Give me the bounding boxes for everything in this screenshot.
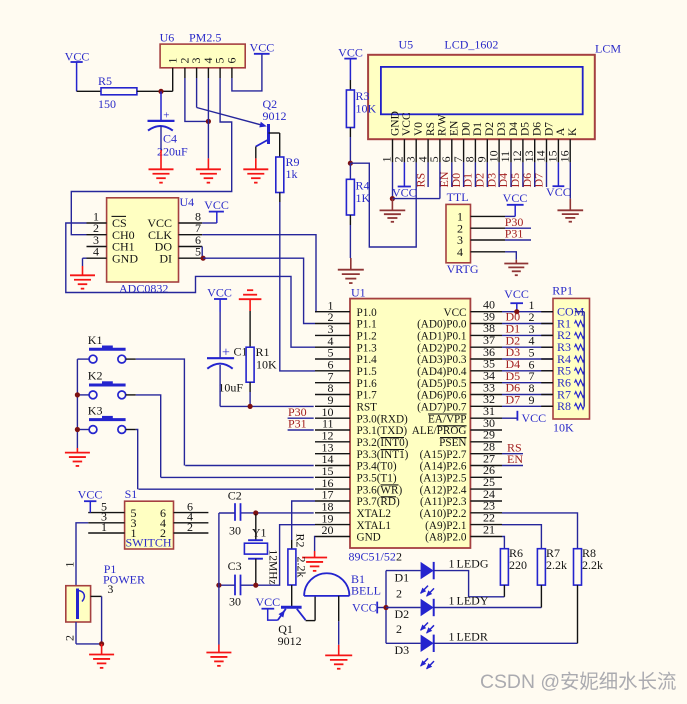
pushbutton K1 [77,333,184,466]
wire D2 cathode to R7 [434,607,542,609]
resistor R2 2.2k [288,534,309,586]
power VCC (S1 pin5) [78,488,103,513]
wire bus to ground [76,448,78,453]
wire C1 to RST node [220,365,250,406]
svg-text:5: 5 [195,245,201,259]
svg-text:P1.2: P1.2 [357,331,377,343]
svg-text:EN: EN [507,452,523,466]
svg-text:C3: C3 [228,559,242,573]
wire P1 pin2 to ground [76,622,102,644]
U4 right pins 8-5 [147,210,202,266]
wire VCC to R5 [77,90,101,92]
svg-text:D7: D7 [532,173,546,188]
svg-text:2: 2 [187,520,193,534]
svg-text:PM2.5: PM2.5 [189,31,221,45]
wire bell to ground [338,596,340,656]
svg-text:(A15)P2.7: (A15)P2.7 [420,449,467,461]
svg-text:(AD2)P0.2: (AD2)P0.2 [417,342,466,354]
wire U6.6 to VCC [232,54,262,91]
transistor Q1 9012 [278,607,306,648]
svg-text:RST: RST [357,402,378,414]
svg-text:P3.2(INT0): P3.2(INT0) [357,437,409,449]
wire net P31 (U1 pin11) [288,417,314,431]
svg-text:VCC: VCC [546,185,571,199]
svg-text:P1.1: P1.1 [357,319,377,331]
wire U6.4 down to ground [207,78,209,169]
svg-text:D1: D1 [395,570,410,584]
wire U6.3 diagonal to Q2 emitter [197,78,265,126]
svg-text:1: 1 [449,629,455,643]
wire CLK to U1 P1.0 [202,235,316,312]
resistor network RP1 10K [552,284,589,435]
power VCC (top-left) [65,50,90,92]
node C1/R1/RST [248,404,253,409]
svg-text:XTAL1: XTAL1 [357,520,392,532]
svg-text:1k: 1k [286,167,298,181]
RP1 pins, labels and zigzag resistors [529,298,585,413]
svg-text:VCC: VCC [503,191,528,205]
label VRTG [447,262,479,276]
svg-text:P3.4(T0): P3.4(T0) [357,461,397,473]
svg-text:LCM: LCM [595,42,621,56]
svg-text:1: 1 [449,594,455,608]
node LED bus VCC [383,605,388,610]
svg-text:(A9)P2.1: (A9)P2.1 [425,520,466,532]
wire TTL pin2 net P30 [505,215,531,229]
U1 left pins 1-20 [315,298,409,543]
connector P1 POWER [66,562,145,622]
svg-text:P3.6(WR): P3.6(WR) [357,484,403,496]
svg-text:(A11)P2.3: (A11)P2.3 [420,496,467,508]
capacitor C3 30 [219,559,256,608]
svg-text:RP1: RP1 [552,284,573,298]
RP1 internal bus [575,312,584,407]
ground under keys [65,453,90,466]
svg-text:21: 21 [483,522,495,536]
wire net RS (U1 pin28) [502,440,523,454]
svg-text:(AD3)P0.3: (AD3)P0.3 [417,354,467,366]
svg-text:(AD4)P0.4: (AD4)P0.4 [417,366,467,378]
svg-text:89C51/52: 89C51/52 [349,550,396,564]
svg-text:(A10)P2.2: (A10)P2.2 [420,508,467,520]
svg-text:P1.5: P1.5 [357,366,378,378]
svg-text:VCC: VCC [338,46,363,60]
svg-text:VCC: VCC [78,488,103,502]
svg-text:C2: C2 [228,488,242,502]
node DO/DI junction [201,256,206,261]
LED D2 LEDY [386,586,489,633]
svg-text:(A13)P2.5: (A13)P2.5 [420,473,467,485]
svg-text:V0: V0 [413,122,425,136]
svg-text:2: 2 [160,526,166,540]
svg-text:K: K [567,127,579,136]
wire DI to U1 P1.1 [203,258,315,323]
svg-text:P1.3: P1.3 [357,342,378,354]
ground under U4 GND [70,275,95,288]
svg-text:P31: P31 [288,417,307,431]
capacitor C4 220uF [148,109,189,158]
svg-text:1: 1 [131,526,137,540]
svg-text:(AD6)P0.6: (AD6)P0.6 [417,390,467,402]
svg-text:VCC: VCC [401,112,413,136]
resistor R8 2.2k [574,546,604,643]
U1 right pins 40-21 [412,298,502,544]
svg-text:K2: K2 [88,369,103,383]
wire R1 to RST node [249,382,251,406]
wires LCD EN,D0-D7 stubs down [452,162,547,187]
U6 pin numbers 1-6 [165,58,238,64]
svg-text:VCC: VCC [250,41,275,55]
wire D1 cathode to R6 [434,571,505,597]
wire R2 to Q1 base [291,585,293,607]
wire XTAL2 row to C2/Y1 [241,512,314,514]
svg-text:6: 6 [225,58,239,64]
svg-text:D1: D1 [472,122,484,136]
power VCC (U1 pin40) [504,287,529,312]
U5 pin stubs [393,139,571,162]
svg-text:PSEN: PSEN [439,437,466,449]
wire CS loop to U1 P1.3 [66,223,315,347]
svg-text:(AD5)P0.5: (AD5)P0.5 [417,378,467,390]
ground under P1 [89,655,114,668]
power VCC (LED bus) [352,601,386,615]
U5 pin names rotated [389,111,579,136]
svg-text:1K: 1K [356,191,371,205]
wire DO joins DI [201,247,203,259]
wire U4 GND to ground [83,258,87,275]
wire K3 to P3.6 [139,488,314,490]
ground under U6.4 [196,169,221,182]
svg-text:VCC: VCC [207,286,232,300]
svg-text:VRTG: VRTG [447,262,479,276]
svg-text:P3.1(TXD): P3.1(TXD) [357,425,408,437]
svg-text:1: 1 [101,520,107,534]
svg-text:ADC0832: ADC0832 [119,282,168,296]
node VCC/RP1 [514,309,519,314]
svg-text:P1.4: P1.4 [357,354,378,366]
svg-text:Y1: Y1 [252,526,267,540]
svg-text:D7: D7 [506,393,521,407]
ground under R4 [338,270,364,283]
ground under LCD pin16 [557,210,583,221]
wire RST row from C1/R1 node [250,405,314,407]
resistor R5 150 [98,74,137,111]
wire K bus [76,359,78,448]
svg-text:TTL: TTL [447,190,469,204]
wire K2 to P3.5 [161,476,314,478]
svg-text:GND: GND [357,532,381,544]
svg-text:U5: U5 [399,38,414,52]
capacitor C1 10uF [207,312,248,395]
svg-text:D3: D3 [496,122,508,136]
wire U6.5 to ADC CH0 [71,78,231,235]
svg-text:150: 150 [98,97,116,111]
wires D0-D7 to RP1 with red labels [502,310,553,407]
buzzer B1 BELL [304,572,381,598]
svg-text:D6: D6 [532,122,544,136]
svg-text:GND: GND [112,251,138,265]
svg-text:+: + [222,346,230,361]
power VCC (Q1 emitter) [255,595,280,620]
svg-text:(A8)P2.0: (A8)P2.0 [425,532,467,544]
svg-text:P1.6: P1.6 [357,378,378,390]
wire P3.7 to R2 [292,501,315,540]
svg-text:P1.7: P1.7 [357,390,378,402]
ground under Q2 [243,169,268,182]
wire U6.2 to ground node [185,78,209,121]
wire LED bus [385,571,387,644]
svg-text:RS: RS [425,122,437,136]
svg-text:LEDR: LEDR [457,629,488,643]
ground under LCD pin1 [380,199,406,222]
node K3 bus [75,427,80,432]
P1 pin2 rotated label [63,635,77,641]
resistor R1 10K [246,311,277,382]
svg-text:VCC: VCC [352,601,377,615]
LED D3 LEDR [386,622,488,669]
TTL pin numbers [457,210,463,259]
IC U1 89C51/52 [349,286,471,564]
node K2 bus [75,392,80,397]
power VCC (LCD pin2, downward) [392,162,417,199]
node LCD pin1/RW [390,196,395,201]
svg-text:U6: U6 [160,31,175,45]
svg-text:2: 2 [63,635,77,641]
U5 pin numbers 1-16 rotated [380,150,572,162]
svg-text:1: 1 [63,562,77,568]
wire R3 to node [349,128,351,164]
U6 pin stubs [173,68,232,78]
svg-text:VCC: VCC [504,287,529,301]
node R3/R4/V0 [348,161,353,166]
resistor R9 1k [276,133,300,193]
svg-text:D5: D5 [520,122,532,136]
wire R9 to U1 P1.5 [280,193,315,371]
svg-text:D2: D2 [395,607,410,621]
svg-text:4: 4 [93,245,99,259]
svg-text:2.2k: 2.2k [582,558,603,572]
resistor R3 10K [346,80,376,128]
svg-text:ALE/PROG: ALE/PROG [412,425,467,437]
svg-text:P3.7(RD): P3.7(RD) [357,496,400,508]
svg-text:P3.5(T1): P3.5(T1) [357,473,397,485]
flipped ground above R1 [239,290,262,311]
capacitor C2 30 [219,488,242,537]
svg-text:VCC: VCC [392,185,417,199]
svg-text:2: 2 [396,549,402,563]
svg-text:(AD7)P0.7: (AD7)P0.7 [417,402,467,414]
ground under crystal bus [206,653,231,666]
connector U6 PM2.5 [160,31,246,68]
wire LCD GND pin1 down [392,162,394,198]
U4 left pins 1-4 [87,210,139,266]
svg-text:EN: EN [449,120,461,136]
power VCC (U4 pin8) [202,198,229,223]
wire LCD RS pin4 stub [427,162,429,187]
ground under TTL pin4 [504,264,528,276]
wire U6.1 down to node [172,78,174,91]
wire P2.2 to R8 [502,513,578,549]
svg-text:D2: D2 [484,122,496,136]
svg-text:VCC: VCC [522,411,547,425]
svg-text:12MHz: 12MHz [267,550,279,585]
power VCC (EA/VPP pin31, sideways) [502,411,546,425]
svg-text:CSDN @安妮细水长流: CSDN @安妮细水长流 [480,671,676,693]
svg-text:(AD1)P0.1: (AD1)P0.1 [417,331,466,343]
node junction R5/C4/U6.1 [158,89,163,94]
svg-text:R5: R5 [98,74,112,88]
svg-text:R8: R8 [557,399,571,413]
power VCC (C1 top) [207,286,232,313]
wire P2.0 to R6 [502,537,504,549]
P1 pin1 rotated label [63,562,77,568]
svg-text:1: 1 [449,557,455,571]
svg-text:GND: GND [389,111,401,136]
connector TTL [446,190,471,263]
red net labels RS EN D0-D7 (LCD) [413,171,545,187]
wire VCC row to RP1 COM [502,311,553,313]
svg-text:D7: D7 [543,122,555,136]
svg-text:2: 2 [396,586,402,600]
svg-text:U4: U4 [180,195,195,209]
svg-text:R2: R2 [294,534,308,548]
svg-text:VCC: VCC [204,198,229,212]
node C3/Y1 [253,583,258,588]
wire C4 to ground [160,126,162,169]
svg-text:10K: 10K [256,358,277,372]
wire LCD pin1 to RW pin5 [392,162,440,198]
svg-text:10uF: 10uF [218,381,243,395]
wire R5 to node [137,90,173,92]
crystal Y1 12MHz [244,514,278,585]
wire LCD pin16 K to ground [569,162,571,210]
svg-text:A: A [555,127,567,136]
svg-text:S1: S1 [125,487,138,501]
power VCC (U6 pin6) [250,41,275,55]
switch S1 [125,487,174,550]
LED D1 LEDG [386,549,489,596]
wire U1 GND to ground [314,537,316,558]
wire S1 pin3 to P1 [76,523,88,586]
svg-text:P1.0: P1.0 [357,307,378,319]
svg-text:30: 30 [229,524,241,538]
wire node to ground [101,644,103,655]
svg-text:P3.3(INT1): P3.3(INT1) [357,449,409,461]
svg-text:U1: U1 [351,286,366,300]
IC U4 ADC0832 [107,195,195,296]
svg-text:3: 3 [107,582,113,596]
svg-text:(A12)P2.4: (A12)P2.4 [420,484,467,496]
svg-text:C4: C4 [163,132,177,146]
svg-text:D0: D0 [460,122,472,136]
LCD module U5 LCD_1602 [368,38,621,140]
svg-text:2: 2 [396,622,402,636]
ground under U1 GND [302,558,327,571]
svg-text:4: 4 [457,245,463,259]
resistor R6 220 [500,546,527,597]
power VCC (R3 top) [338,46,363,81]
wire node to C4 [160,91,162,121]
resistor R4 1K [346,163,370,215]
resistor R7 2.2k [537,546,567,608]
svg-text:9: 9 [529,393,535,407]
svg-text:16: 16 [557,150,571,162]
wire net EN (U1 pin27) [502,452,523,466]
svg-text:K3: K3 [88,403,103,417]
svg-text:9012: 9012 [278,634,302,648]
S1 pins and numbers [88,499,208,540]
node C2/Y1 [253,510,258,515]
svg-text:P3.0(RXD): P3.0(RXD) [357,413,409,425]
wire crystal bus to ground [218,513,220,653]
svg-text:30: 30 [229,595,241,609]
ground under C4 [149,169,174,182]
watermark CSDN [480,671,676,693]
svg-text:D3: D3 [395,643,410,657]
power VCC (LCD pin15 A, downward) [546,162,571,199]
wire P2.1 to R7 [502,525,541,549]
wire XTAL1 row to C3/Y1 [256,525,315,586]
svg-text:LCD_1602: LCD_1602 [444,38,498,52]
svg-text:220: 220 [509,558,527,572]
svg-text:BELL: BELL [351,584,381,598]
svg-text:EA/VPP: EA/VPP [428,413,467,425]
power VCC (TTL pin1) [503,191,528,217]
svg-text:(AD0)P0.0: (AD0)P0.0 [417,319,467,331]
svg-text:XTAL2: XTAL2 [357,508,392,520]
wire Q1 collector to bell [306,596,316,621]
wire D3 cathode to R8 [434,642,578,644]
pushbutton K2 [77,369,160,478]
svg-text:DI: DI [159,251,172,265]
pushbutton K3 [77,403,137,489]
transistor Q2 9012 [256,97,287,147]
node C3 bus [216,583,221,588]
wire node to LCD V0 [350,162,416,247]
svg-text:P31: P31 [505,227,524,241]
wire K1 to P3.4 [185,465,314,467]
wire P1 pin3 loop [91,596,102,644]
svg-text:D4: D4 [508,122,520,136]
svg-text:R/W: R/W [437,114,449,136]
svg-text:10K: 10K [553,421,574,435]
wire Q2 collector to ground [255,147,257,170]
svg-text:VCC: VCC [255,595,280,609]
svg-text:LEDG: LEDG [457,557,489,571]
svg-text:VCC: VCC [443,307,466,319]
svg-text:+: + [163,109,169,121]
wire net P30 (U1 pin10) [288,405,314,419]
svg-text:9012: 9012 [263,109,287,123]
svg-text:LEDY: LEDY [457,594,489,608]
TTL pin stubs [471,216,506,251]
svg-text:K1: K1 [88,333,103,347]
node P1 ground [99,641,104,646]
svg-text:2.2k: 2.2k [546,558,567,572]
wire TTL pin4 to ground [505,252,516,264]
node U6.4/U6.2 junction [206,119,211,124]
svg-text:2.2k: 2.2k [295,557,309,578]
svg-text:20: 20 [322,523,334,537]
wire TTL pin3 net P31 [505,227,531,241]
svg-text:(A14)P2.6: (A14)P2.6 [420,461,467,473]
wire R4 to ground [349,215,351,270]
ground under bell [325,655,352,668]
svg-text:10K: 10K [356,102,377,116]
